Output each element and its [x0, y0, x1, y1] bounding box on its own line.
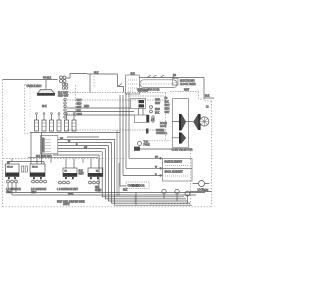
svg-text:GRY: GRY	[165, 112, 170, 114]
svg-text:LIGHT: LIGHT	[63, 204, 70, 206]
svg-text:RED: RED	[77, 104, 82, 106]
center dashed rail 2	[67, 99, 166, 101]
oven light dashed box	[25, 85, 40, 134]
wire drop to door switch	[117, 74, 119, 87]
elbow to broil element	[123, 175, 163, 177]
bus line under switches	[30, 132, 120, 134]
wire center low	[67, 136, 99, 138]
connector box P1 lower	[41, 135, 58, 153]
svg-text:BAKE ELEMENT: BAKE ELEMENT	[165, 161, 183, 164]
svg-text:WHT: WHT	[184, 90, 190, 92]
fan motor cone	[193, 114, 198, 130]
connector column P1 circles	[62, 83, 68, 118]
svg-text:CONV FAN MOTOR: CONV FAN MOTOR	[172, 149, 193, 152]
connector block on wire	[134, 147, 140, 151]
line under connector	[28, 157, 98, 159]
dashed vertical right of elements	[150, 150, 191, 204]
sensor cluster bottom	[126, 182, 149, 189]
hatch in switch boxes	[35, 123, 76, 127]
pin marks in connector	[43, 139, 51, 151]
svg-text:RED: RED	[155, 109, 160, 111]
wire center 2	[67, 111, 135, 113]
fan motor bar	[198, 114, 200, 130]
svg-text:FUSE: FUSE	[144, 145, 151, 147]
right component box	[172, 99, 188, 148]
motor M1 cone	[181, 114, 186, 131]
fuse component	[138, 142, 142, 146]
bottom bus connect ticks	[135, 193, 137, 206]
dashed step top right	[199, 92, 212, 102]
extra verticals comb	[117, 130, 119, 196]
svg-text:BLK: BLK	[79, 171, 84, 173]
outer cabinet dashed border bottom	[3, 206, 212, 208]
lug drops	[164, 194, 188, 203]
plug box P3	[173, 79, 179, 86]
surface switch box R rear	[88, 168, 103, 177]
svg-text:R F SURFACE: R F SURFACE	[31, 188, 47, 191]
svg-text:BLK: BLK	[131, 74, 136, 76]
svg-text:BLK: BLK	[205, 95, 210, 98]
wire with inline switches above capsule	[140, 77, 205, 79]
motor M1 bar	[179, 114, 181, 131]
svg-text:BROIL ELEMENT: BROIL ELEMENT	[165, 172, 184, 174]
svg-text:BLK: BLK	[94, 72, 99, 75]
svg-text:HI LO: HI LO	[7, 167, 13, 169]
lower relay box	[134, 115, 149, 122]
wire block to panel	[140, 148, 172, 150]
svg-text:GRN: GRN	[96, 190, 101, 192]
motor M2 cone	[181, 132, 186, 143]
dotted guide	[29, 88, 31, 118]
dashed console edge	[75, 85, 77, 118]
bus elbows down	[99, 139, 192, 205]
wires under surface units	[8, 183, 205, 195]
wire top run to switch	[87, 73, 118, 75]
svg-text:RED GRY: RED GRY	[58, 96, 69, 98]
terminal lugs bottom right	[162, 189, 166, 193]
svg-text:WHT: WHT	[165, 105, 171, 107]
svg-text:DOOR: DOOR	[160, 123, 167, 125]
svg-text:HI LO: HI LO	[32, 167, 38, 169]
svg-text:P9 BLK: P9 BLK	[43, 77, 52, 80]
wire riser to top run	[66, 74, 87, 79]
motor lead wires	[172, 122, 179, 138]
wires between relay boxes	[139, 109, 144, 116]
switch S1	[147, 75, 157, 78]
svg-text:ELECTRONIC: ELECTRONIC	[180, 81, 195, 83]
svg-text:A B: A B	[151, 119, 155, 122]
svg-text:RED: RED	[84, 105, 89, 108]
svg-text:BLK: BLK	[42, 105, 47, 108]
svg-text:OVEN LAMPS DOOR: OVEN LAMPS DOOR	[137, 89, 160, 92]
terminal circles row 1	[7, 180, 100, 184]
surface switch box L rear	[63, 168, 77, 177]
element wire dots	[160, 158, 162, 160]
svg-text:GRN: GRN	[68, 194, 73, 196]
risers above switches	[37, 115, 75, 121]
small connectors between clusters	[22, 166, 24, 172]
broil element box	[163, 169, 192, 181]
wire RED center	[67, 107, 131, 109]
svg-text:RED: RED	[165, 109, 170, 111]
cluster feet	[8, 177, 99, 179]
door lock motor	[199, 181, 205, 187]
svg-text:WHT GRN JUMPER WIRE: WHT GRN JUMPER WIRE	[57, 201, 85, 203]
svg-text:WHT: WHT	[79, 174, 85, 176]
relay box K1	[126, 75, 140, 94]
surface switch box L front	[6, 164, 20, 177]
dashed console corner top	[93, 73, 95, 88]
svg-text:CONTROL: CONTROL	[156, 133, 168, 135]
switch row boxes	[35, 120, 77, 131]
wires atop surface switches	[8, 159, 91, 168]
svg-text:TOD: TOD	[144, 142, 149, 144]
motor M2 bar	[179, 132, 181, 143]
surface switch box R front	[30, 164, 45, 177]
vertical bus 4 wires	[120, 93, 129, 187]
capsule clock label	[140, 80, 177, 88]
svg-text:BLK: BLK	[123, 190, 128, 192]
wire center 3	[67, 114, 135, 116]
wire L1 top feed	[3, 79, 58, 81]
center dashed rail 1	[67, 92, 199, 93]
svg-text:BLK WHT RED: BLK WHT RED	[36, 156, 52, 158]
svg-text:RANGE: RANGE	[156, 129, 165, 132]
svg-text:OVEN LIGHT: OVEN LIGHT	[27, 85, 43, 88]
node circles P4	[150, 106, 153, 109]
relay block center	[131, 98, 146, 108]
svg-text:BLK: BLK	[155, 113, 160, 115]
svg-text:WHT: WHT	[155, 103, 161, 105]
outer cabinet dashed border left	[2, 80, 4, 207]
svg-text:GRN: GRN	[203, 190, 208, 192]
wire bake 2	[126, 167, 163, 169]
lamp oven light	[37, 80, 54, 96]
center dashed rail 1b	[130, 95, 166, 97]
maintop dashed box top	[3, 158, 126, 160]
svg-text:CLOCK TIMER: CLOCK TIMER	[180, 84, 196, 86]
drops from bus to switch clusters	[16, 133, 99, 193]
wire right drop	[204, 78, 214, 99]
dashed vertical mid-right	[165, 93, 167, 140]
wire console drop	[89, 74, 91, 93]
elbow to bake element	[129, 157, 163, 159]
svg-text:GY: GY	[84, 147, 88, 149]
svg-text:GRY: GRY	[155, 100, 160, 102]
wire motor to fan	[186, 121, 193, 123]
wire grn	[190, 191, 212, 193]
bake element box	[163, 159, 192, 169]
outer cabinet dashed border right	[211, 101, 213, 207]
plug P9	[60, 76, 67, 83]
svg-text:LOCK: LOCK	[160, 126, 167, 128]
switch S2	[160, 75, 176, 78]
svg-text:BLK: BLK	[165, 102, 170, 104]
svg-text:L R SURFACE UNIT: L R SURFACE UNIT	[57, 188, 79, 191]
dashed center low	[67, 129, 160, 131]
fan wheel	[200, 117, 209, 126]
relay contacts dark	[139, 100, 145, 103]
bus wires from connector	[53, 139, 115, 155]
switch door	[118, 84, 124, 93]
